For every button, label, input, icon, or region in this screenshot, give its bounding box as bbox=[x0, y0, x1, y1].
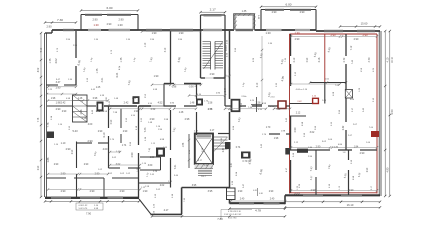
column P3 bbox=[232, 100, 240, 112]
step wall centre to right bbox=[284, 195, 286, 204]
bay window B1 outline bbox=[80, 15, 82, 31]
dim stair bay bbox=[201, 11, 226, 13]
dim cluster bottom-left bbox=[76, 203, 103, 210]
shaft hatched base bbox=[195, 164, 214, 169]
wall right apt h3 bbox=[290, 115, 307, 117]
svg-text:2.90: 2.90 bbox=[62, 111, 67, 113]
svg-text:2.12: 2.12 bbox=[296, 113, 301, 115]
vestibule wall bbox=[164, 83, 174, 85]
dim right outside bbox=[384, 31, 386, 196]
svg-text:2.90: 2.90 bbox=[72, 149, 74, 154]
bay B1 floor openings bbox=[88, 28, 101, 30]
porch bottom wall bbox=[151, 213, 183, 215]
red boundary left bbox=[289, 34, 291, 194]
svg-text:0.88: 0.88 bbox=[172, 87, 177, 89]
window bottom-right 2 bbox=[341, 194, 362, 196]
svg-text:2.40: 2.40 bbox=[240, 198, 245, 200]
svg-text:16.10: 16.10 bbox=[392, 56, 394, 62]
svg-text:7.12: 7.12 bbox=[351, 45, 353, 50]
svg-text:1.75: 1.75 bbox=[120, 57, 123, 62]
svg-text:7.31: 7.31 bbox=[174, 164, 177, 169]
window bottom-left 3 bbox=[108, 197, 124, 199]
svg-text:2.90: 2.90 bbox=[295, 38, 300, 41]
svg-text:4.02: 4.02 bbox=[54, 58, 58, 64]
svg-text:2.90: 2.90 bbox=[367, 167, 369, 172]
dim top right 15.60 bbox=[340, 26, 380, 28]
svg-text:1.86: 1.86 bbox=[47, 157, 50, 162]
shaft centre bbox=[241, 152, 251, 159]
bottom outer wall left section bbox=[45, 197, 139, 199]
svg-text:0.98: 0.98 bbox=[93, 98, 98, 100]
svg-text:4.90: 4.90 bbox=[386, 167, 389, 172]
wall wc divider x121 bbox=[120, 109, 122, 129]
svg-text:1.48: 1.48 bbox=[78, 98, 83, 100]
lobby right wall bbox=[224, 78, 226, 106]
svg-text:1.30: 1.30 bbox=[265, 31, 271, 35]
svg-text:6.00: 6.00 bbox=[106, 6, 112, 10]
svg-text:0.90: 0.90 bbox=[111, 119, 113, 124]
svg-text:2.47: 2.47 bbox=[231, 162, 233, 167]
svg-text:1.35: 1.35 bbox=[242, 10, 247, 13]
wall right apt v4 bbox=[315, 150, 317, 170]
text cluster bottom centre bbox=[221, 209, 252, 211]
dim marks left of P6 bbox=[110, 151, 120, 153]
svg-text:2.90: 2.90 bbox=[354, 38, 359, 41]
centre section left drop wall bbox=[229, 188, 231, 204]
elevator lobby wall bbox=[188, 134, 190, 168]
svg-text:2.90: 2.90 bbox=[300, 11, 305, 14]
spine wall right of corridor bbox=[164, 105, 177, 107]
svg-text:2.42: 2.42 bbox=[343, 125, 345, 130]
svg-text:1.30: 1.30 bbox=[117, 23, 123, 27]
svg-text:5.10: 5.10 bbox=[41, 47, 43, 52]
apartment separation wall segments bbox=[290, 34, 292, 56]
column left wall bbox=[47, 132, 54, 139]
svg-text:1.10: 1.10 bbox=[61, 142, 66, 145]
svg-text:1.48: 1.48 bbox=[190, 103, 195, 105]
svg-text:2.58: 2.58 bbox=[80, 109, 83, 114]
door block apt entry bbox=[285, 148, 290, 155]
svg-text:4.78: 4.78 bbox=[255, 209, 261, 213]
svg-text:5.44: 5.44 bbox=[225, 87, 227, 92]
svg-text:1.10: 1.10 bbox=[145, 42, 147, 47]
svg-text:2.58: 2.58 bbox=[256, 102, 261, 105]
svg-text:2.90: 2.90 bbox=[84, 164, 89, 166]
stair treads bbox=[203, 41, 211, 43]
svg-text:6.10: 6.10 bbox=[103, 132, 106, 137]
svg-text:2.90: 2.90 bbox=[107, 23, 112, 26]
duct shaft hatched bbox=[73, 95, 88, 122]
hatch at right wall start bbox=[293, 193, 296, 197]
svg-text:10.10: 10.10 bbox=[229, 67, 231, 73]
svg-text:2.90: 2.90 bbox=[360, 152, 365, 155]
red partition vertical bbox=[324, 34, 326, 83]
svg-text:5.43: 5.43 bbox=[72, 129, 78, 133]
svg-text:0.90: 0.90 bbox=[307, 57, 309, 62]
wall wc block bbox=[140, 156, 161, 158]
svg-text:2.90: 2.90 bbox=[54, 164, 59, 166]
porch right wall bbox=[181, 188, 183, 215]
window bottom-right 1 bbox=[303, 194, 323, 196]
wall room divider h1 bbox=[47, 84, 59, 86]
svg-text:2.90: 2.90 bbox=[118, 18, 124, 22]
dim ticks on partition bbox=[309, 81, 311, 83]
svg-text:1.48: 1.48 bbox=[179, 112, 184, 114]
stairwell left wall bbox=[200, 30, 202, 78]
spine wall left part bbox=[47, 105, 72, 107]
wall bedroom h y143 bbox=[77, 142, 93, 144]
svg-text:7.00: 7.00 bbox=[276, 109, 281, 111]
svg-text:3.02: 3.02 bbox=[310, 131, 315, 134]
dim bottom centre bbox=[230, 208, 286, 210]
svg-text:2.90: 2.90 bbox=[272, 11, 277, 14]
stair bay floor opening bbox=[203, 28, 222, 30]
wall right apt v3 bbox=[348, 150, 350, 160]
svg-text:1.90: 1.90 bbox=[134, 111, 139, 113]
stair bay window bbox=[204, 14, 222, 16]
svg-text:1.75: 1.75 bbox=[96, 68, 99, 73]
svg-text:2.40: 2.40 bbox=[270, 198, 275, 200]
svg-text:1.02 7.80: 1.02 7.80 bbox=[228, 218, 237, 220]
svg-text:5.02 0.74: 5.02 0.74 bbox=[79, 208, 89, 210]
wall right apt v1 bbox=[345, 34, 347, 56]
dim bottom right bbox=[285, 201, 380, 203]
left outer wall bbox=[43, 33, 45, 197]
svg-text:2.90: 2.90 bbox=[120, 190, 125, 193]
bay B1 floor wall segments bbox=[81, 29, 88, 31]
dim bottom-left below wall bbox=[45, 200, 139, 202]
top-left corner step wall bbox=[51, 30, 53, 33]
dim left outside bbox=[40, 33, 42, 197]
spine thin opening bbox=[151, 105, 164, 107]
dark partition below bbox=[324, 83, 326, 104]
svg-text:4.10: 4.10 bbox=[386, 57, 389, 62]
svg-text:4.00 m: 4.00 m bbox=[296, 89, 303, 91]
porch diagonal wall bbox=[139, 199, 151, 214]
svg-text:1.25: 1.25 bbox=[96, 87, 101, 89]
elevator shaft bbox=[195, 134, 213, 165]
svg-text:1.30: 1.30 bbox=[294, 31, 300, 35]
stair mid rails bbox=[210, 42, 212, 70]
svg-text:2.90: 2.90 bbox=[92, 18, 98, 22]
interior dimension lines bbox=[48, 100, 83, 102]
svg-text:7.80: 7.80 bbox=[217, 217, 223, 221]
small cross near centre windows bbox=[257, 188, 259, 196]
red boundary top bbox=[290, 33, 378, 35]
svg-text:0.74: 0.74 bbox=[236, 147, 241, 149]
svg-text:2.90: 2.90 bbox=[61, 190, 66, 193]
svg-text:2.98: 2.98 bbox=[185, 118, 190, 121]
dim top bay2 bbox=[261, 6, 316, 8]
wall below-mid h bbox=[109, 167, 121, 169]
bay B1 windows bbox=[85, 14, 102, 16]
svg-text:7.43: 7.43 bbox=[144, 127, 147, 132]
svg-text:4.17: 4.17 bbox=[164, 209, 169, 212]
svg-text:4.02: 4.02 bbox=[38, 67, 40, 72]
svg-text:3.95: 3.95 bbox=[208, 190, 213, 193]
stair bay outline bbox=[200, 15, 202, 30]
svg-text:2.17: 2.17 bbox=[210, 8, 216, 12]
column P5 bbox=[278, 101, 286, 109]
svg-text:1.90: 1.90 bbox=[143, 190, 148, 193]
svg-text:2.90: 2.90 bbox=[150, 118, 155, 121]
column P1 bbox=[97, 102, 104, 112]
svg-text:16.10: 16.10 bbox=[347, 203, 354, 207]
svg-text:2.12: 2.12 bbox=[293, 57, 296, 62]
outer wall top right section bbox=[316, 30, 380, 32]
svg-text:1.70: 1.70 bbox=[266, 127, 271, 129]
bottom outer wall centre section bbox=[230, 202, 286, 204]
svg-text:4.52: 4.52 bbox=[158, 102, 163, 105]
wall room divider x104 bbox=[103, 178, 105, 198]
window bottom-left 1 bbox=[51, 197, 71, 199]
svg-text:2.47: 2.47 bbox=[223, 147, 225, 152]
svg-text:4.17: 4.17 bbox=[201, 175, 206, 178]
step wall to centre section bbox=[182, 187, 230, 189]
svg-text:1.90: 1.90 bbox=[179, 32, 184, 35]
svg-text:2.58: 2.58 bbox=[82, 118, 87, 120]
svg-text:2.90: 2.90 bbox=[46, 25, 52, 29]
column P2 bbox=[196, 99, 203, 106]
red boundary right bbox=[376, 34, 378, 194]
svg-text:2.90: 2.90 bbox=[269, 191, 274, 193]
column P6 bbox=[156, 148, 165, 157]
balcony window band bbox=[236, 29, 254, 31]
svg-text:2.90: 2.90 bbox=[56, 108, 61, 111]
wall right apt h2 bbox=[290, 103, 313, 105]
bay window B2 outline bbox=[260, 10, 262, 31]
svg-text:7.90: 7.90 bbox=[86, 211, 92, 215]
window W4 bbox=[324, 30, 343, 32]
red column bbox=[313, 98, 319, 103]
wall upper-left vertical bbox=[75, 31, 77, 58]
svg-text:2.90: 2.90 bbox=[123, 131, 128, 133]
svg-text:2.90: 2.90 bbox=[210, 73, 215, 76]
bay B2 floor openings bbox=[266, 28, 282, 30]
outer wall top between B1 and stair bay bbox=[138, 29, 201, 31]
wall left rooms divider bbox=[76, 142, 78, 169]
svg-text:1.74: 1.74 bbox=[122, 145, 127, 147]
svg-text:1.75: 1.75 bbox=[49, 58, 52, 63]
svg-text:2.42: 2.42 bbox=[124, 102, 129, 105]
svg-text:2.90: 2.90 bbox=[330, 33, 336, 37]
bottom outer wall right section bbox=[285, 194, 380, 196]
svg-text:3.60: 3.60 bbox=[148, 165, 153, 167]
svg-text:2.52: 2.52 bbox=[151, 108, 156, 111]
svg-text:15.60: 15.60 bbox=[361, 22, 368, 26]
spine wall mid bbox=[104, 105, 137, 107]
svg-text:0.78 0.98 1.10: 0.78 0.98 1.10 bbox=[228, 211, 242, 213]
dim below h1 bbox=[47, 93, 76, 95]
wall lower corridor vertical bbox=[170, 110, 172, 150]
svg-text:2.90: 2.90 bbox=[131, 152, 134, 157]
dim top-left 7.30 bbox=[45, 22, 76, 24]
stair diagonal bbox=[204, 42, 223, 69]
vent shaft right apt bbox=[345, 90, 352, 99]
balcony hatched walls bbox=[234, 14, 236, 31]
lobby left wall bbox=[196, 84, 198, 100]
svg-text:4.21: 4.21 bbox=[101, 77, 104, 82]
svg-text:2.90: 2.90 bbox=[38, 165, 40, 170]
svg-text:2.58: 2.58 bbox=[208, 103, 213, 105]
bay B2 windows bbox=[265, 9, 284, 11]
balcony hatch lines bbox=[234, 14, 237, 17]
stairwell right wall bbox=[224, 30, 226, 78]
vent box at centre wall bottom bbox=[227, 188, 236, 200]
window bottom-centre 2 bbox=[264, 202, 280, 204]
svg-text:2.90: 2.90 bbox=[238, 191, 243, 193]
svg-text:2.42: 2.42 bbox=[96, 111, 101, 113]
svg-text:2.72: 2.72 bbox=[343, 57, 346, 62]
svg-text:1.90: 1.90 bbox=[152, 32, 157, 35]
dim centre room vertical bbox=[261, 36, 263, 104]
svg-text:0.30: 0.30 bbox=[259, 193, 263, 195]
outer wall top between stair bay and balcony bbox=[225, 29, 234, 31]
svg-text:7.76: 7.76 bbox=[38, 117, 40, 122]
svg-text:2.90: 2.90 bbox=[87, 139, 93, 143]
svg-text:0.18: 0.18 bbox=[141, 118, 143, 122]
svg-text:7.76: 7.76 bbox=[47, 122, 50, 127]
svg-text:9.50: 9.50 bbox=[390, 109, 394, 115]
svg-text:2.90: 2.90 bbox=[294, 127, 297, 132]
outer wall top-left segment bbox=[52, 29, 81, 31]
red boundary bottom bbox=[290, 192, 377, 194]
window W3 bbox=[170, 29, 193, 31]
vestibule left wall bbox=[170, 31, 172, 84]
stair bottom wall bbox=[201, 77, 206, 79]
svg-text:-0.90: -0.90 bbox=[188, 87, 194, 89]
svg-text:2.90: 2.90 bbox=[90, 190, 95, 193]
svg-text:4.70: 4.70 bbox=[368, 57, 371, 62]
svg-text:1.98: 1.98 bbox=[51, 98, 56, 100]
right outer wall bbox=[378, 31, 380, 196]
entrance steps below elevator bbox=[198, 169, 212, 171]
cross junction mark bbox=[256, 97, 258, 112]
svg-text:2.17: 2.17 bbox=[210, 130, 215, 132]
elevator machine band bbox=[197, 134, 212, 136]
wall left-mid vertical v2 bbox=[108, 106, 110, 128]
svg-text:3.47: 3.47 bbox=[56, 81, 61, 84]
outer wall top between balcony and bay B2 bbox=[255, 29, 262, 31]
svg-text:4.00: 4.00 bbox=[103, 148, 108, 151]
wall small rooms h bbox=[47, 177, 67, 179]
svg-text:3.16: 3.16 bbox=[318, 57, 321, 62]
svg-text:2.90: 2.90 bbox=[362, 33, 368, 37]
wall below vestibule bbox=[163, 84, 165, 107]
svg-text:2.42: 2.42 bbox=[61, 102, 66, 105]
wall left-mid vertical v3 bbox=[138, 106, 140, 145]
block on centre wall bbox=[225, 142, 231, 149]
window W2 bbox=[146, 29, 162, 31]
window W5 bbox=[357, 30, 375, 32]
wall right apt partition h bbox=[310, 82, 346, 84]
svg-text:1.86: 1.86 bbox=[183, 142, 185, 147]
dim top bay1 bbox=[81, 10, 138, 12]
red wall element right bbox=[371, 131, 379, 137]
svg-text:1.98: 1.98 bbox=[274, 138, 279, 140]
wall right apt main h bbox=[290, 149, 331, 151]
svg-text:3.95: 3.95 bbox=[192, 185, 197, 187]
svg-text:2.02: 2.02 bbox=[160, 185, 165, 187]
svg-text:0.20: 0.20 bbox=[253, 190, 257, 192]
bay B2 floor wall segments bbox=[261, 29, 266, 31]
svg-text:4.00: 4.00 bbox=[88, 124, 93, 126]
wall centre vertical bbox=[229, 31, 231, 99]
svg-text:7.30: 7.30 bbox=[57, 18, 63, 22]
column P1b bbox=[133, 96, 140, 104]
svg-text:1.90: 1.90 bbox=[154, 75, 159, 78]
svg-text:10.10: 10.10 bbox=[226, 44, 228, 50]
svg-text:1.30: 1.30 bbox=[93, 23, 99, 27]
svg-text:2.50c: 2.50c bbox=[241, 96, 247, 98]
svg-text:6.00: 6.00 bbox=[285, 2, 291, 6]
svg-text:0.98 1.32: 0.98 1.32 bbox=[79, 205, 89, 207]
svg-text:3.02: 3.02 bbox=[116, 163, 121, 166]
corner stair treads bbox=[214, 136, 228, 138]
window bottom-centre 1 bbox=[239, 202, 254, 204]
svg-text:2.90: 2.90 bbox=[316, 146, 321, 149]
svg-text:6.24: 6.24 bbox=[116, 72, 119, 77]
window bottom-left 2 bbox=[80, 197, 100, 199]
wall centre room h bbox=[269, 133, 280, 135]
svg-text:2.90: 2.90 bbox=[98, 131, 103, 133]
elevator cross bbox=[196, 139, 212, 164]
svg-text:3.10: 3.10 bbox=[165, 47, 167, 52]
svg-text:1.58 1.10 1.40 2.02: 1.58 1.10 1.40 2.02 bbox=[224, 214, 242, 216]
dark segment on apt wall bbox=[297, 149, 308, 153]
svg-text:2.90: 2.90 bbox=[66, 148, 71, 151]
wall elevator top bbox=[197, 133, 198, 135]
window top-left bbox=[63, 29, 74, 31]
dim line lobby bbox=[189, 95, 225, 97]
dim bottom long bbox=[152, 215, 285, 217]
svg-text:1.58: 1.58 bbox=[150, 157, 155, 159]
svg-text:2.10: 2.10 bbox=[257, 82, 259, 87]
